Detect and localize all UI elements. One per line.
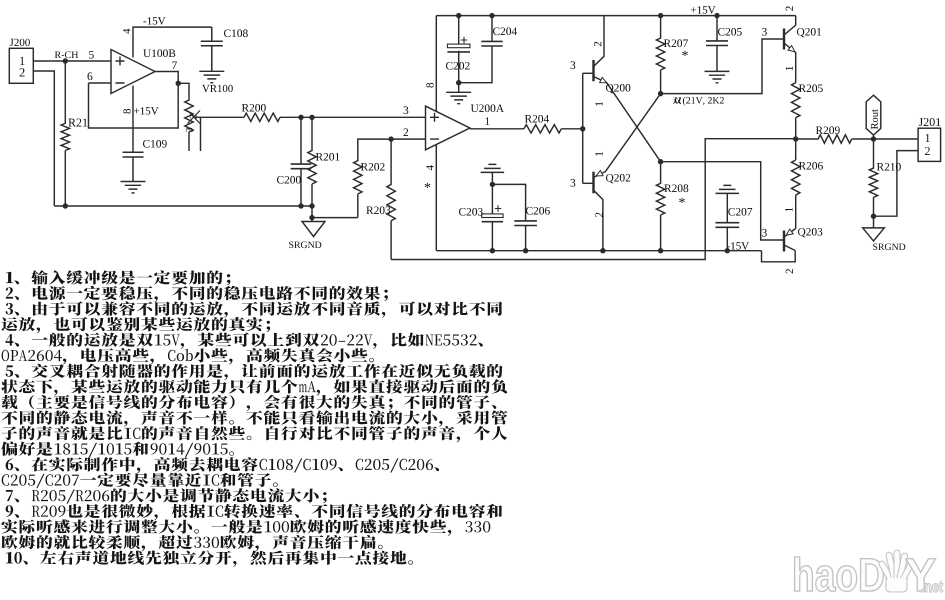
wire U100B feedback loop [89, 72, 179, 129]
pin 2 label U200A [404, 128, 409, 136]
capacitor C205 [716, 16, 718, 72]
label Q200 [606, 84, 630, 93]
junction Q202 collector bottom [600, 248, 605, 253]
junction R210 bottom [871, 214, 876, 219]
Q200 pin3 label [571, 61, 576, 69]
label R205 [799, 84, 823, 92]
watermark haoDIY.net [795, 550, 943, 592]
label R209 [816, 126, 840, 134]
connector J201 [918, 128, 941, 161]
resistor R208 [656, 162, 664, 251]
junction C200 top [298, 115, 303, 120]
ground under C109 [121, 182, 146, 193]
wire SRGND stub stage1 [312, 206, 358, 222]
ground under C108 [199, 71, 224, 82]
junction R207 top [658, 13, 663, 18]
junction C205 top [714, 13, 719, 18]
pot pin 2 label [190, 115, 197, 119]
capacitor C204 [459, 16, 492, 83]
label +15V at U100B [134, 107, 159, 115]
junction U200A pin2 [388, 136, 393, 141]
ground symbol C202 [446, 92, 471, 103]
label SRGND stage1 [289, 242, 321, 249]
label C109 [143, 140, 167, 148]
wire U100B pin6 (inverting input) [89, 82, 112, 84]
junction output node [793, 136, 798, 141]
label R204 [525, 115, 549, 123]
note line 16 [6, 504, 503, 521]
note line 14 [2, 473, 278, 488]
label R201 [316, 153, 340, 161]
wire +15V rail [436, 15, 795, 17]
junction C203 bottom [490, 248, 495, 253]
junction SRGND stage1 [309, 215, 314, 220]
Q202 pin3 label [571, 179, 576, 187]
note line 17 [1, 519, 490, 535]
asterisk U200A pin4 [425, 183, 431, 188]
capacitor C202 plates [447, 44, 470, 48]
note line 1 [6, 270, 230, 285]
Q201 pin2 label [786, 6, 793, 10]
label C202 [446, 62, 470, 70]
wire J200 pin2 to ground bus [33, 71, 54, 206]
label C200 [277, 176, 301, 184]
pin 6 label [88, 72, 93, 80]
op-amp U100B [111, 50, 155, 94]
capacitor C207 [726, 193, 728, 250]
label net R-CH [55, 51, 78, 58]
wire base riser Q200/Q202 [582, 73, 584, 183]
junction C202/C204 ground [456, 80, 461, 85]
label dual 21V 2K2 [673, 97, 682, 104]
pin 7 label [172, 62, 177, 70]
wire feedback R203 to output node [391, 139, 796, 260]
capacitor C206 [492, 184, 525, 250]
asterisk R207 [682, 51, 688, 56]
label Q203 [798, 228, 822, 237]
capacitor C108 [201, 27, 223, 71]
label -15V rail [727, 242, 749, 250]
label C205 [718, 28, 742, 36]
arrow Q203 emitter [785, 229, 794, 237]
transistor Q200 [583, 72, 594, 74]
transistor Q203 [783, 231, 785, 252]
wire stage1 ground bus [54, 205, 312, 207]
label C206 [526, 207, 550, 215]
pin 8 label [123, 109, 130, 114]
arrow Q200 emitter [600, 77, 608, 85]
plus sign C202 [461, 37, 467, 43]
pin 3 label U200A [404, 106, 409, 114]
arrow Q201 emitter [788, 46, 797, 55]
note line 6 [2, 348, 374, 364]
label C204 [493, 27, 517, 35]
resistor R210 [869, 139, 877, 216]
capacitor C203 [491, 184, 493, 250]
pin 4 label U200A [426, 165, 433, 170]
plus sign C203 [495, 205, 501, 211]
note line 12 [1, 441, 234, 457]
capacitor C202 [458, 16, 460, 83]
ground SRGND stage1 [302, 222, 325, 237]
capacitor C207 plates [715, 223, 739, 228]
label R21 [68, 119, 87, 127]
junction R204/base riser [580, 126, 585, 131]
junction C203/C206 ground [490, 182, 495, 187]
capacitor C206 plates [514, 221, 537, 226]
label Q201 [797, 28, 821, 37]
label R210 [877, 163, 901, 171]
label C108 [224, 29, 248, 37]
resistor R200 [244, 113, 280, 121]
Q203 pin3 label [762, 229, 767, 237]
label C203 [459, 208, 483, 216]
pot pin 3 label [186, 128, 193, 132]
junction R208 bottom [658, 248, 663, 253]
junction C206 bottom [523, 248, 528, 253]
junction Rout node [871, 136, 876, 141]
pin 1 label U200A [486, 117, 490, 125]
wire R200 to U200A pin3 [280, 116, 426, 118]
capacitor C200 [300, 117, 302, 206]
connector J200 [9, 48, 33, 83]
junction C202 top [456, 13, 461, 18]
wire to U200A pin2 [391, 138, 425, 140]
resistor R209 [796, 135, 918, 143]
Q203 pin1 label [785, 208, 792, 212]
note line 9 [2, 395, 497, 411]
label R203 [366, 206, 390, 214]
label R207 [664, 39, 688, 47]
note line 18 [1, 535, 382, 551]
wire J200 pin1 to U100B pin5 (R-CH net) [33, 60, 111, 62]
resistor R205 [792, 83, 800, 160]
resistor R202 [354, 139, 392, 218]
label +15V rail [691, 6, 716, 14]
note line 3 [6, 301, 503, 317]
note line 19 [6, 550, 413, 566]
label R206 [799, 162, 823, 170]
label U100B [143, 49, 175, 57]
asterisk R208 [679, 198, 685, 203]
capacitor C109 [123, 152, 144, 181]
junction R21 bottom [63, 203, 68, 208]
note line 5 [6, 332, 483, 348]
junction R201 top [309, 115, 314, 120]
wire J201 pin2 to SRGND [874, 151, 919, 217]
label J201 [919, 118, 941, 126]
ground under C202 [458, 83, 460, 93]
Q202 pin1 label [595, 152, 602, 156]
note line 10 [1, 410, 507, 426]
pin 5 label [89, 51, 94, 59]
resistor R206 [792, 160, 800, 229]
potentiometer VR100 [178, 83, 200, 151]
junction R201 bottom [309, 203, 314, 208]
resistor R201 [308, 117, 316, 206]
Q201 pin1 label [786, 66, 793, 70]
resistor R207 [656, 16, 664, 94]
Q203 pin2 label [786, 269, 793, 273]
label U200A [471, 104, 504, 112]
Q200 pin2 label [594, 42, 601, 46]
label -15V supply [143, 17, 165, 25]
junction U100B output [176, 81, 181, 86]
arrow Q202 emitter [595, 171, 603, 179]
ground SRGND output [873, 216, 875, 228]
label Rout [871, 109, 878, 129]
ground symbol above C207 [716, 185, 740, 193]
note line 4 [2, 317, 271, 333]
label R208 [664, 184, 688, 192]
ground symbol above C203 [481, 164, 505, 172]
wire U200A output pin1 [470, 128, 524, 130]
wire U200A supply pins (box left edge) [435, 16, 437, 251]
resistor R204 [524, 125, 561, 133]
junction R208/Q200 emitter [658, 159, 663, 164]
transistor Q201 [783, 29, 785, 50]
label C207 [728, 208, 752, 216]
wire U100B pin4 to -15V rail [133, 27, 212, 57]
op-amp U200A [426, 106, 470, 150]
junction C204 top [489, 13, 494, 18]
note line 15 [6, 488, 327, 504]
wire Q203 base drive [661, 162, 784, 240]
note line 13 [6, 457, 439, 473]
capacitor C204 plates [481, 41, 502, 46]
wire -15V rail [436, 250, 761, 252]
wire pot wiper to R200 [194, 116, 244, 118]
wire Q201 base drive [661, 39, 784, 94]
pin 4 label [123, 29, 130, 34]
resistor R21 [61, 61, 69, 206]
transistor Q202 [583, 182, 594, 184]
junction R-CH/R21 [63, 58, 68, 63]
label R200 [242, 104, 266, 112]
note line 11 [2, 426, 508, 442]
junction C207 bottom [725, 248, 730, 253]
junction C200 bottom [298, 203, 303, 208]
ground under C205 [705, 71, 730, 82]
capacitor C200 plates [291, 164, 312, 169]
junction R207/Q202 emitter [658, 91, 663, 96]
pin 8 label U200A [426, 83, 433, 88]
label Q202 [606, 174, 630, 183]
capacitor C205 plates [706, 41, 728, 46]
note line 7 [6, 364, 503, 380]
wire -15V rail step to Q203 collector [762, 251, 796, 262]
label R202 [361, 163, 385, 171]
capacitor C203 plates [482, 214, 503, 218]
label SRGND output [873, 244, 905, 251]
Q200 pin1 label [595, 102, 602, 106]
wire R204 to base riser [561, 128, 582, 130]
note line 2 [6, 286, 388, 302]
net flag Rout [873, 135, 875, 139]
note line 8 [1, 379, 507, 395]
label VR100 [202, 85, 233, 92]
Q202 pin2 label [595, 213, 602, 217]
resistor R203 [387, 139, 395, 259]
wire U100B pin8 +15V to C109 [132, 86, 134, 153]
Q201 pin3 label [762, 28, 767, 36]
